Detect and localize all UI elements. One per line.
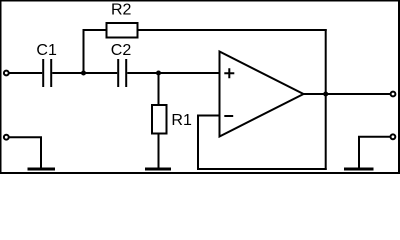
wire lower-left terminal to ground [9,136,41,169]
feedback column wire down [325,29,327,170]
lower-left ground terminal [4,135,9,140]
ground under R1 [145,168,171,171]
ground lower-right [344,168,374,171]
wire to R2 left [83,29,106,31]
svg-text:R2: R2 [111,1,132,18]
node A junction [81,71,86,76]
wire op-amp output [304,93,391,95]
input terminal [4,71,9,76]
resistor R2 [107,1,138,37]
op-amp U1 [220,52,304,137]
wire input to C1 [9,72,43,74]
wire feedback bottom [197,168,327,170]
node B junction [156,71,161,76]
resistor R1 [152,105,192,134]
output node junction [323,92,328,97]
wire minus feedback down [197,115,199,171]
output terminal [391,92,396,97]
ground lower-left [28,168,56,171]
wire node B down to R1 [158,73,160,105]
wire C2 to op-amp plus input [127,72,220,74]
wire minus input stub [198,115,221,117]
capacitor C1 [36,42,57,87]
lower-right ground terminal [391,134,396,139]
svg-text:C2: C2 [111,42,132,59]
svg-text:R1: R1 [171,112,192,129]
wire node A up to R2 level [83,29,85,73]
svg-text:C1: C1 [36,42,57,59]
wire C1 to C2 [52,72,117,74]
capacitor C2 [111,42,132,87]
wire R2 right to feedback column [139,29,327,31]
wire R1 to ground [158,134,160,170]
wire lower-right terminal to ground [359,136,391,169]
